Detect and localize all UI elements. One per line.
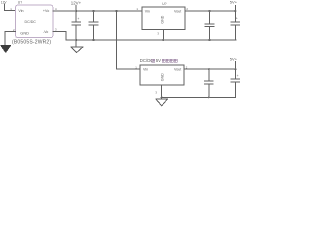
svg-text:GND: GND xyxy=(20,31,29,36)
net label 12V+ xyxy=(71,1,82,6)
capacitor C6 (polarized) xyxy=(231,69,240,97)
IC U2 body (7805 regulator) xyxy=(142,7,185,29)
net label 12V xyxy=(1,1,8,5)
pin label Vin U3 xyxy=(143,67,148,71)
pin 1 number xyxy=(136,7,138,11)
node junction at C1 top xyxy=(75,10,77,12)
node junction C2 top xyxy=(92,10,94,12)
node junction C4 top xyxy=(234,10,236,12)
pin label +Vo U1 xyxy=(43,9,49,13)
wire U2 GND pin xyxy=(162,30,164,41)
svg-text:(B0505S-2WR2): (B0505S-2WR2) xyxy=(12,40,51,46)
svg-text:GND: GND xyxy=(161,73,165,81)
capacitor C1 (polarized) xyxy=(72,11,81,40)
wire U1 GND pin to ground xyxy=(5,32,16,45)
pin label -Vo U1 xyxy=(43,30,48,34)
node junction U2 gnd xyxy=(162,39,164,41)
node junction U3 gnd xyxy=(161,96,163,98)
svg-text:5V: 5V xyxy=(156,58,161,63)
node junction C5 bottom xyxy=(208,96,210,98)
pin label Vout U2 xyxy=(174,10,181,14)
wire feed to lower module xyxy=(117,11,141,69)
pin label Vin U2 xyxy=(145,10,150,14)
svg-text:DC/DC: DC/DC xyxy=(25,20,37,24)
svg-text:U?: U? xyxy=(162,2,166,6)
pin label GND U1 xyxy=(20,31,29,36)
node junction C3 bottom xyxy=(208,39,210,41)
wire U3 output rail xyxy=(184,68,235,70)
ground (open, output side) xyxy=(71,40,83,53)
node junction C2 bottom xyxy=(92,39,94,41)
U2 designator xyxy=(162,2,166,6)
pin 2 number xyxy=(186,7,188,11)
pin 1 number xyxy=(135,65,137,69)
pin 4 number xyxy=(55,7,57,11)
pin label GND U2 (rotated) xyxy=(161,15,165,23)
svg-text:12V+: 12V+ xyxy=(71,1,82,6)
wire label stub upper 5V xyxy=(234,5,236,11)
pin 3 number xyxy=(155,90,157,94)
capacitor C2 xyxy=(89,11,98,40)
svg-text:-Vo: -Vo xyxy=(43,30,48,34)
pin 1 number xyxy=(10,7,12,11)
wire lower gnd rail xyxy=(162,96,236,98)
svg-text:GND: GND xyxy=(161,15,165,23)
ground (filled, input side) xyxy=(1,45,12,52)
svg-text:+Vo: +Vo xyxy=(43,9,49,13)
svg-text:U?: U? xyxy=(18,0,22,4)
node junction feed xyxy=(116,10,118,12)
wire U2 output rail 5V xyxy=(185,10,235,12)
svg-text:Vout: Vout xyxy=(174,67,181,71)
IC U1 body (isolated DC/DC module) xyxy=(16,5,53,37)
svg-text:Vout: Vout xyxy=(174,10,181,14)
svg-text:Vin: Vin xyxy=(18,9,23,13)
value label lower module xyxy=(140,58,161,63)
value label DC/DC xyxy=(25,20,37,24)
capacitor C4 (polarized) xyxy=(231,11,240,40)
svg-text:Vin: Vin xyxy=(145,10,150,14)
wire label stub xyxy=(75,6,77,11)
svg-text:+: + xyxy=(77,17,79,21)
IC U3 body (DC/DC 5V module) xyxy=(140,65,184,85)
net label 5V+ (upper) xyxy=(230,0,238,5)
capacitor C3 xyxy=(205,11,214,40)
node junction C5 top xyxy=(208,68,210,70)
pin 2 number xyxy=(186,65,188,69)
U1 designator xyxy=(18,0,22,4)
pin label Vout U3 xyxy=(174,67,181,71)
wire top rail 12V+ xyxy=(53,10,142,12)
svg-text:5V+: 5V+ xyxy=(230,56,238,61)
wire bottom rail (output ground) xyxy=(53,32,236,41)
wire U3 GND pin xyxy=(161,85,163,99)
pin 3 number xyxy=(157,32,159,36)
net label 5V+ (lower) xyxy=(230,56,238,61)
pin 3 number xyxy=(55,27,57,31)
pin 2 number xyxy=(13,28,15,32)
svg-text:+: + xyxy=(237,74,239,78)
node junction C1 bottom xyxy=(75,39,77,41)
value label module part number xyxy=(12,40,51,46)
svg-text:5V+: 5V+ xyxy=(230,0,238,5)
node junction C3 top xyxy=(208,10,210,12)
pin label GND U3 (rotated) xyxy=(161,73,165,81)
pin label Vin U1 xyxy=(18,9,23,13)
svg-text:+: + xyxy=(236,17,238,21)
ground (open, lower) xyxy=(156,99,168,106)
wire input stub xyxy=(4,4,15,11)
node junction C6 top xyxy=(234,68,236,70)
svg-text:Vin: Vin xyxy=(143,67,148,71)
wire label stub lower 5V xyxy=(234,61,236,69)
capacitor C5 xyxy=(205,69,214,97)
